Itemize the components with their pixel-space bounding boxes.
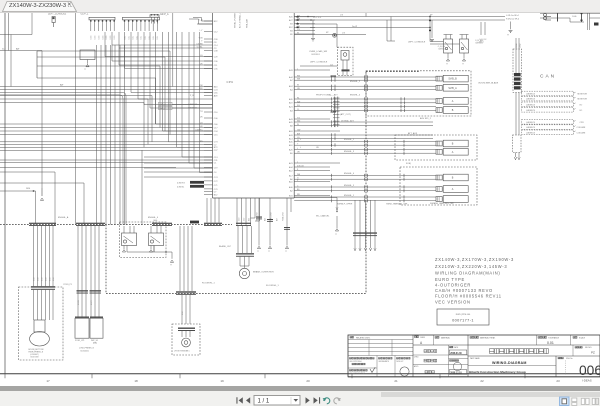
- wires to engine position sensor: [176, 226, 280, 324]
- svg-text:L AVSSCS: L AVSSCS: [188, 107, 198, 110]
- svg-text:Dw W: Dw W: [352, 26, 357, 28]
- svg-text:A77: A77: [276, 218, 279, 221]
- svg-text:L AVSSCS: L AVSSCS: [526, 93, 536, 96]
- relay O_B_LH: [438, 35, 453, 66]
- svg-text:L AVSSCS: L AVSSCS: [526, 126, 536, 129]
- svg-text:PART NAME: PART NAME: [470, 357, 481, 360]
- wire group FOE: [294, 163, 436, 203]
- dark separator bar: [0, 386, 600, 391]
- svg-text:SW/WLP_OFF/H: SW/WLP_OFF/H: [337, 204, 353, 206]
- svg-text:LEFT_CONSOLE: LEFT_CONSOLE: [408, 41, 426, 43]
- CPU bottom pin stubs: [207, 198, 291, 226]
- svg-text:0.85 LB: 0.85 LB: [297, 166, 304, 168]
- svg-text:19: 19: [220, 379, 224, 383]
- browser tab bar: [0, 0, 600, 13]
- svg-text:77: 77: [84, 69, 86, 71]
- svg-text:FMA_GND: FMA_GND: [282, 212, 285, 221]
- junction with circle at top middle: [294, 32, 366, 37]
- svg-text:0.5L: 0.5L: [145, 36, 147, 40]
- svg-text:SCALE: SCALE: [579, 336, 586, 339]
- svg-text:0.5L: 0.5L: [133, 36, 135, 40]
- svg-text:LEFT_CONSOLE: LEFT_CONSOLE: [48, 13, 67, 15]
- middle wire bundle descending to arrows: [353, 200, 377, 251]
- svg-text:L: L: [300, 139, 301, 141]
- svg-text:(NB): (NB): [93, 342, 97, 344]
- svg-text:DWG No.: DWG No.: [566, 358, 573, 360]
- rows 45 48 extensions: [112, 45, 204, 48]
- svg-text:CAN1: CAN1: [515, 43, 518, 48]
- svg-text:TOLERANCE: TOLERANCE: [548, 336, 560, 339]
- svg-text:L AVSSCS: L AVSSCS: [526, 103, 536, 106]
- svg-text:SV/B_B: SV/B_B: [448, 78, 457, 81]
- svg-text:(ATT_CUT): (ATT_CUT): [340, 113, 351, 116]
- bus pin squares right rows: [297, 16, 299, 28]
- svg-text:FOE): FOE): [406, 163, 411, 165]
- svg-text:Lg: Lg: [200, 111, 202, 113]
- dashed box FOE: [400, 167, 477, 205]
- pressure switch WIP_S1: [79, 317, 103, 353]
- previous view icon: [324, 397, 330, 403]
- svg-text:VEC VERSION: VEC VERSION: [435, 300, 471, 305]
- svg-text:0067: 0067: [579, 363, 600, 378]
- switch WL_CANCEL: [294, 198, 338, 236]
- svg-text:FLOOR/HL_1: FLOOR/HL_1: [266, 285, 280, 287]
- connector bars on ENG/HL boundary: [29, 216, 222, 226]
- connector LEFT_CONSOLE top-left: [48, 13, 67, 27]
- svg-text:ZX140W-3,ZX170W-3,ZX190W-3: ZX140W-3,ZX170W-3,ZX190W-3: [435, 257, 514, 262]
- svg-text:SW/ANG_PARK ING_OFF: SW/ANG_PARK ING_OFF: [430, 202, 455, 205]
- svg-text:GN.COPR RIGHMCS: GN.COPR RIGHMCS: [350, 373, 365, 375]
- wire bundle to boom switch: [33, 226, 55, 286]
- svg-text:1L-BL: 1L-BL: [572, 16, 577, 18]
- svg-text:MCU.G.P: MCU.G.P: [397, 361, 404, 363]
- relay output wire to ground: [127, 246, 174, 267]
- svg-text:ENG/HL_1: ENG/HL_1: [344, 195, 355, 197]
- svg-text:BW: BW: [297, 134, 300, 136]
- plug FOE C: [436, 196, 468, 203]
- svg-text:77: 77: [446, 63, 448, 65]
- corner wires comb to CPU: [189, 18, 213, 25]
- sheet left border line: [4, 12, 6, 374]
- drawing title text block: [435, 257, 514, 305]
- part name cell: [468, 357, 556, 374]
- svg-text:MATERIAL TREAT.: MATERIAL TREAT.: [480, 336, 496, 339]
- svg-text:77: 77: [257, 251, 259, 253]
- facing layout disabled: [581, 398, 589, 404]
- connector CAN vertical dashed: [513, 38, 522, 93]
- svg-text:ENG/HL_4: ENG/HL_4: [148, 217, 159, 219]
- svg-text:ASV SF1_2: ASV SF1_2: [420, 117, 432, 120]
- svg-text:LOW_PRESS_S: LOW_PRESS_S: [79, 348, 95, 350]
- svg-text:0.01: 0.01: [547, 341, 554, 345]
- svg-text:ENG/HL_2: ENG/HL_2: [344, 139, 355, 141]
- svg-text:77: 77: [335, 234, 337, 236]
- svg-text:WH/AL_POWER: WH/AL_POWER: [234, 12, 237, 28]
- svg-text:OUT(R) SER_BLADE: OUT(R) SER_BLADE: [478, 81, 499, 84]
- svg-text:KB.DWG: KB.DWG: [585, 347, 592, 349]
- svg-text:CAN2: CAN2: [518, 43, 521, 48]
- svg-text:SOL_GND: SOL_GND: [257, 212, 259, 221]
- svg-text:W B: W B: [199, 38, 203, 40]
- connector comb 1-3/10-DM8: [123, 12, 160, 40]
- top wire along upper edge: [366, 12, 600, 17]
- svg-text:ATT_AUX: ATT_AUX: [408, 132, 418, 135]
- connector ATT_CUT DIGITAL_ATT vertical: [333, 97, 355, 128]
- svg-text:ENG/HL_5: ENG/HL_5: [344, 185, 355, 187]
- drawing number box 0007177-1: [437, 309, 489, 325]
- component box left with ground: [80, 50, 95, 71]
- svg-text:SV/B_A: SV/B_A: [448, 87, 457, 90]
- svg-text:L AVSSCS: L AVSSCS: [526, 121, 536, 124]
- ground x432: [430, 20, 434, 42]
- wire group ATT_AUX: [294, 139, 436, 155]
- svg-text:AW: AW: [16, 47, 19, 50]
- svg-text:0.3 RB: 0.3 RB: [196, 44, 203, 46]
- svg-text:LG: LG: [200, 123, 203, 125]
- svg-text:FW: FW: [199, 85, 202, 87]
- svg-text:WR: WR: [199, 88, 203, 90]
- svg-text:0.5L: 0.5L: [137, 36, 139, 40]
- book layout disabled: [592, 398, 598, 404]
- single page layout (active blue): [560, 397, 570, 406]
- svg-text:0.5G: 0.5G: [114, 35, 116, 39]
- svg-text:2008.12.10: 2008.12.10: [450, 373, 462, 375]
- plug B1: [436, 107, 468, 114]
- svg-text:1L5: 1L5: [330, 64, 333, 66]
- ground x313: [311, 39, 315, 41]
- svg-text:EURO TYPE: EURO TYPE: [435, 277, 465, 282]
- approval stamp cells: [348, 356, 410, 377]
- highlighted inverse wire labels near CPU lower-left: [177, 181, 204, 224]
- svg-text:GL/P_L: GL/P_L: [81, 13, 90, 15]
- svg-text:PZ: PZ: [591, 351, 595, 355]
- svg-text:L 0R-Cw SF-4: L 0R-Cw SF-4: [506, 15, 519, 17]
- svg-text:WIRLING DIAGRAM(MAIN): WIRLING DIAGRAM(MAIN): [435, 271, 500, 276]
- svg-text:0.5G: 0.5G: [98, 35, 100, 39]
- svg-text:TB/NO_PARKING_OFF: TB/NO_PARKING_OFF: [386, 203, 408, 206]
- svg-text:21: 21: [394, 379, 398, 383]
- continuous layout disabled: [572, 398, 577, 405]
- CPU left pin stubs: [144, 20, 218, 197]
- svg-text:L: L: [300, 147, 301, 149]
- svg-text:17: 17: [46, 379, 50, 383]
- dashed relay box pair: [120, 220, 167, 258]
- wires BLADE cluster: [219, 223, 254, 266]
- svg-text:C AVSSCS: C AVSSCS: [188, 103, 198, 106]
- svg-text:FLOOR/HL_1: FLOOR/HL_1: [202, 282, 216, 284]
- svg-text:GW: GW: [297, 130, 300, 132]
- top right corner connectors and wires: [540, 12, 600, 31]
- svg-text:C19: C19: [244, 218, 246, 221]
- vertical drop wires middle top: [387, 17, 395, 42]
- svg-text:BRAKE_OUTER HOR: BRAKE_OUTER HOR: [253, 271, 274, 274]
- svg-text:0.3WPu: 0.3WPu: [195, 130, 202, 132]
- pressure switch POS1_LP1: [75, 317, 89, 342]
- svg-text:0.85 BL: 0.85 BL: [177, 186, 185, 188]
- vertical harness name texts above CPU right: [234, 11, 249, 28]
- svg-text:4-OUTORIGER: 4-OUTORIGER: [435, 283, 471, 288]
- svg-text:CAB/H #0007133 REVO: CAB/H #0007133 REVO: [435, 288, 493, 293]
- svg-text:MONITOR: MONITOR: [578, 99, 588, 101]
- svg-text:L: L: [297, 69, 298, 71]
- svg-text:2008.01.30: 2008.01.30: [450, 353, 462, 355]
- svg-text:A22: A22: [264, 218, 267, 221]
- svg-text:#3167038: #3167038: [30, 357, 38, 359]
- left area long horizontal wires: [0, 35, 213, 225]
- dashed box outrigger SER_BLADE: [366, 71, 499, 116]
- svg-text:ENG/HL_3: ENG/HL_3: [350, 94, 361, 96]
- plug FOE A: [436, 186, 468, 193]
- svg-text:0.5G: 0.5G: [106, 35, 108, 39]
- relay K1: [122, 226, 137, 252]
- material treat tolerance scale cells: [468, 335, 586, 377]
- svg-text:AW: AW: [60, 84, 63, 87]
- svg-text:GN.RIGHMCS: GN.RIGHMCS: [379, 361, 389, 363]
- connector comb GR-P_A: [150, 13, 169, 24]
- horizontal scrollbar thumb: [381, 392, 600, 397]
- svg-text:77: 77: [170, 264, 172, 266]
- svg-text:#4893011: #4893011: [475, 42, 483, 44]
- svg-text:POS1_P1: POS1_P1: [64, 284, 72, 286]
- svg-text:BLADE_CLP: BLADE_CLP: [219, 245, 232, 248]
- svg-text:0.3 BL: 0.3 BL: [197, 47, 204, 49]
- controller U1 CPU block outline: [213, 12, 295, 198]
- svg-text:ACT_D SMALL_R: ACT_D SMALL_R: [239, 11, 242, 28]
- page number box: [254, 395, 300, 405]
- wire bundles to pressure switches: [77, 226, 102, 318]
- svg-text:CHKD: CHKD: [420, 337, 426, 339]
- svg-text:18: 18: [134, 379, 138, 383]
- svg-text:CAN_(: CAN_(: [160, 107, 166, 110]
- svg-text:20: 20: [306, 379, 310, 383]
- svg-text:L AVSSCS: L AVSSCS: [526, 98, 536, 101]
- svg-text:0.5L: 0.5L: [141, 36, 143, 40]
- svg-text:DIGITAL_ATT: DIGITAL_ATT: [341, 119, 355, 122]
- svg-text:RELATED DWG.: RELATED DWG.: [356, 336, 371, 339]
- switch OVER_LOAD_SW: [300, 47, 353, 75]
- svg-text:GR-P_A: GR-P_A: [160, 13, 169, 16]
- plug FOE B: [436, 174, 468, 181]
- svg-text:A71: A71: [153, 221, 156, 224]
- left area vertical wires: [9, 12, 173, 225]
- svg-text:FLOOR/H #0005546 REV11: FLOOR/H #0005546 REV11: [435, 294, 502, 299]
- relay O_B_RH: [460, 35, 484, 66]
- svg-text:R 0R-Cw SF-4: R 0R-Cw SF-4: [506, 19, 520, 21]
- svg-text:ENG/HL_4: ENG/HL_4: [344, 173, 355, 175]
- CPU right pin stubs: [289, 15, 433, 197]
- dashed box boom bottom switch: [19, 284, 72, 360]
- dwg number cell big number: [556, 356, 600, 378]
- svg-text:LG: LG: [200, 55, 203, 57]
- relay K2: [149, 226, 164, 252]
- svg-text:I/O: I/O: [580, 110, 583, 112]
- svg-text:#4893201: #4893201: [311, 54, 321, 56]
- svg-text:MATERIAL: MATERIAL: [441, 336, 450, 339]
- svg-text:77: 77: [462, 63, 464, 65]
- svg-text:( POSI T ENGINE ): ( POSI T ENGINE ): [174, 351, 190, 353]
- svg-text:ZX210W-3,ZX220W-3,145W-3: ZX210W-3,ZX220W-3,145W-3: [435, 264, 507, 269]
- svg-text:#4450000: #4450000: [80, 350, 90, 352]
- sheet zone numbers 17-23: [46, 379, 591, 383]
- top horizontal wires to right edge: [294, 15, 551, 48]
- svg-text:23: 23: [556, 379, 560, 383]
- svg-text:COLUMN: COLUMN: [577, 132, 586, 134]
- first page button: [236, 397, 250, 403]
- svg-text:RWD (PPE 000: RWD (PPE 000: [456, 314, 471, 316]
- svg-text:L AVSSCS: L AVSSCS: [526, 131, 536, 134]
- svg-text:CAN: CAN: [540, 74, 556, 80]
- nav toolbar: [0, 391, 600, 406]
- svg-text:77: 77: [507, 35, 509, 37]
- plug SV/B_B: [436, 75, 468, 82]
- nested L-routing wires from combs to CPU: [0, 32, 213, 225]
- svg-text:CPU: CPU: [227, 80, 234, 84]
- svg-text:COLUMN: COLUMN: [577, 127, 586, 129]
- svg-text:#489301: #489301: [438, 48, 445, 50]
- svg-text:C10: C10: [239, 218, 241, 221]
- svg-text:0.5L: 0.5L: [128, 36, 130, 40]
- svg-text:0.5G: 0.5G: [91, 35, 93, 39]
- dashed box ATT_AUX: [395, 132, 477, 160]
- svg-text:B03: B03: [249, 218, 251, 221]
- pressure switch BOOM_BOTTOM: [29, 286, 56, 358]
- ticks on mid rows: [332, 120, 336, 146]
- checker name column: [413, 335, 600, 377]
- svg-text:FMA_BAT: FMA_BAT: [246, 18, 249, 28]
- svg-text:L AVSSCS: L AVSSCS: [526, 109, 536, 112]
- relay grounds: [122, 246, 152, 253]
- svg-text:WIRING-DIAGRAM: WIRING-DIAGRAM: [492, 361, 527, 365]
- CAN bus dashed boxes: [522, 91, 588, 134]
- connector comb GL/P_L: [81, 13, 117, 39]
- plug ATT B: [436, 140, 468, 147]
- svg-text:0.5L: 0.5L: [157, 36, 159, 40]
- svg-text:LEFT_CONSOLE: LEFT_CONSOLE: [310, 61, 328, 63]
- svg-text:Pu C 5 G: Pu C 5 G: [313, 17, 322, 19]
- plug A1: [436, 98, 468, 105]
- svg-text:I/O: I/O: [580, 104, 583, 106]
- next/last page buttons: [306, 397, 321, 403]
- CAN stub labels at CPU left: [159, 95, 213, 110]
- CAN bus wires down: [516, 93, 519, 136]
- svg-text:WL_CANCEL: WL_CANCEL: [316, 214, 330, 217]
- related dwg cells: [348, 336, 413, 355]
- labels TB/NO_PARKING_OFF SW/WLP_OFF: [337, 203, 408, 206]
- svg-text:L: L: [297, 162, 298, 164]
- svg-text:Ds: Ds: [200, 140, 202, 142]
- svg-text:OVER_LOAD_SW: OVER_LOAD_SW: [309, 50, 328, 53]
- svg-text:CPU: CPU: [580, 122, 585, 124]
- svg-text:0007177-1: 0007177-1: [452, 319, 474, 323]
- material and date cells: [434, 335, 469, 377]
- svg-text:0.5G: 0.5G: [95, 35, 97, 39]
- svg-text:77: 77: [268, 251, 270, 253]
- svg-text:WG: WG: [297, 121, 301, 123]
- svg-text:0.5L: 0.5L: [153, 36, 155, 40]
- ground x510: [507, 22, 513, 37]
- sheet border bottom line with zone ticks: [0, 374, 600, 378]
- dashed box engine position sensor: [172, 324, 200, 355]
- harness boundary dashed lines: [0, 72, 420, 294]
- diode DR4 and ground: [26, 188, 44, 200]
- svg-text:0.85 RG: 0.85 RG: [177, 182, 185, 184]
- svg-text:ENG/HL_2: ENG/HL_2: [350, 81, 361, 83]
- svg-text:PROPOT IONAL__ATT: PROPOT IONAL__ATT: [316, 93, 338, 96]
- svg-text:Hitachi Construction Machinery: Hitachi Construction Machinery Group: [469, 370, 526, 374]
- plug SV/B_A: [436, 85, 468, 92]
- svg-text:22: 22: [480, 379, 484, 383]
- connector CAN bottom dashed: [513, 135, 522, 160]
- svg-text:LW: LW: [316, 147, 319, 149]
- svg-text:POS1_LP1: POS1_LP1: [75, 340, 84, 342]
- svg-text:CAN_a/: CAN_a/: [160, 103, 167, 106]
- svg-text:1 / 1: 1 / 1: [258, 398, 270, 404]
- svg-text:77: 77: [285, 251, 287, 253]
- svg-text:0.5G: 0.5G: [102, 35, 104, 39]
- title block table frame: [348, 335, 600, 377]
- svg-text:ENG/HL_3: ENG/HL_3: [344, 151, 355, 153]
- next view icon: [334, 397, 340, 403]
- ground stubs row: [256, 198, 290, 253]
- title cell wiring diagram japanese: [468, 345, 600, 356]
- wires down to outrigger box right: [479, 22, 487, 43]
- svg-text:ENG/HL_A: ENG/HL_A: [58, 216, 69, 219]
- horn BRAKE_OUTER: [239, 266, 274, 279]
- plug ATT A: [436, 149, 468, 156]
- svg-text:I-DEAS: I-DEAS: [582, 379, 592, 383]
- svg-text:W: W: [297, 124, 299, 126]
- svg-text:MONITOR: MONITOR: [578, 94, 588, 96]
- bottom toolbar strip: [0, 391, 600, 406]
- svg-text:GN.COPR RIGH: GN.COPR RIGH: [350, 361, 363, 363]
- wire group CPU to outrigger plugs: [294, 75, 436, 112]
